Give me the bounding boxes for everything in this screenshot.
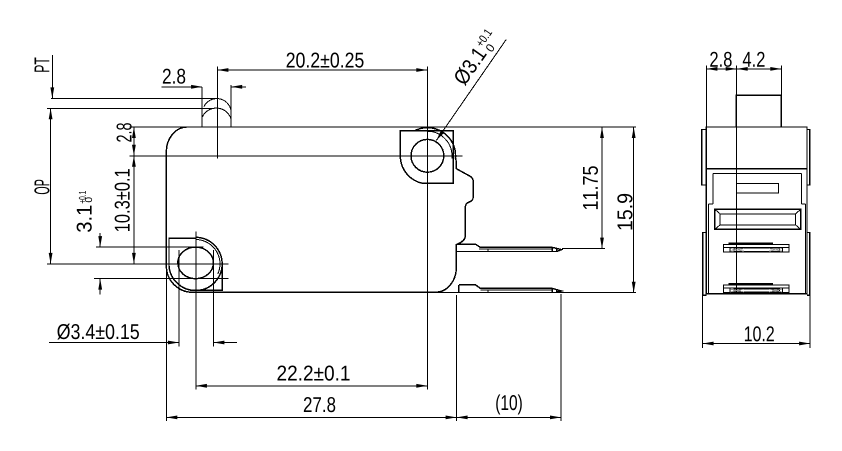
bottom-left mounting boss outer arc	[169, 237, 222, 290]
lower terminal	[459, 285, 562, 292]
side dim 10.2 extensions	[702, 296, 704, 348]
dim 3.1 +0.1/0 lines	[99, 233, 101, 247]
dim 11.75 line	[601, 127, 603, 249]
dim Ø3.4±0.15 lines	[178, 250, 180, 347]
dim 2.8 / 10.3 shared line	[133, 127, 135, 264]
top hole vertical centerline / extension to dims	[426, 67, 428, 390]
dim text 3.1	[77, 206, 92, 232]
extension at terminal tip	[560, 294, 562, 421]
side bottom terminal slot divider	[723, 287, 789, 289]
dim 2.8 (button width) lines	[162, 86, 203, 88]
leader line for hole dia 3.1	[436, 40, 506, 141]
side lower right ear	[807, 233, 810, 296]
dim text 27.8	[304, 397, 335, 412]
switch body left edge	[165, 152, 167, 266]
free position reference line	[51, 97, 216, 99]
top-right mounting boss ring arc	[427, 131, 452, 158]
side inner step	[737, 183, 779, 193]
top-right mounting boss outer arc	[415, 128, 456, 159]
button dome arc pressed position	[202, 108, 231, 120]
side middle terminal slot outer	[723, 244, 789, 252]
dim 22.2±0.1 line	[196, 385, 427, 387]
button dome arc free position	[204, 99, 231, 111]
side bottom terminal bowtie marks	[731, 289, 783, 292]
bottom-left mounting boss square top and left edges	[169, 238, 196, 265]
side lower left ear	[703, 233, 707, 296]
side dim 2.8/4.2 line	[706, 68, 781, 70]
dim text tolerance +0.1	[79, 191, 86, 203]
dim text 4.2 side	[743, 52, 765, 67]
bottom-left mounting boss square bottom and right edges	[192, 264, 222, 290]
dim text Ø3.4±0.15	[57, 324, 139, 340]
bottom hole vertical centerline / extension to 22.2 dim	[195, 232, 197, 390]
side bottom terminal slot blade edge	[729, 283, 773, 285]
side inner right vertical	[801, 174, 803, 204]
side window corner chamfers	[715, 209, 801, 229]
lower terminal inner line	[480, 289, 552, 291]
top edge extension line (left to 2.8 dim, right to 15.9 dim)	[129, 126, 186, 128]
side upper right ear	[807, 130, 810, 186]
dim PT line	[51, 55, 53, 98]
side dim 10.2 line	[703, 343, 811, 345]
side bottom terminal slot end cells	[729, 288, 731, 293]
top hole horizontal centerline	[129, 155, 462, 157]
bottom-left mounting hole ellipse	[178, 247, 214, 279]
dim text 2.8 left	[116, 123, 131, 142]
side bottom terminal slot outer	[723, 285, 789, 293]
middle terminal tip extension line	[562, 248, 605, 250]
button right edge	[230, 85, 232, 127]
dim 20.2±0.25 line	[217, 69, 427, 71]
bottom hole horizontal centerline	[47, 263, 229, 265]
side inner left vertical	[712, 174, 714, 204]
lower terminal shoulder tick	[487, 290, 489, 292]
top-right mounting boss square	[400, 131, 453, 184]
dim text 10.2	[745, 326, 774, 341]
side middle terminal slot divider	[723, 246, 789, 248]
dim text 10.3±0.1	[115, 169, 130, 231]
top-right mounting hole circle	[411, 139, 444, 172]
side body outline	[706, 127, 807, 294]
side bottom terminal inner rect	[734, 289, 780, 292]
bottom-left mounting boss ring arc	[196, 240, 220, 275]
dim text 2.8 side	[710, 52, 731, 67]
side middle terminal inner rect	[734, 248, 780, 251]
middle terminal shoulder tick	[487, 249, 489, 251]
side middle terminal slot end cells	[729, 247, 731, 252]
side middle terminal bowtie marks	[731, 249, 783, 252]
switch body bottom edge	[193, 291, 436, 293]
dim text 2.8 button width	[163, 69, 185, 84]
bottom edge extension to 15.9 dim	[436, 291, 636, 293]
dim text 22.2±0.1	[277, 365, 349, 380]
side band line 1	[706, 168, 807, 170]
dim text 15.9	[617, 194, 632, 230]
middle terminal inner line	[479, 248, 553, 250]
side upper left ear	[702, 130, 707, 186]
dim 27.8 and (10) shared line	[166, 416, 561, 418]
label OP	[34, 180, 49, 194]
bottom hole top tangent line	[96, 246, 204, 248]
operating position reference line	[47, 107, 215, 109]
bottom hole bottom tangent line	[94, 278, 228, 280]
switch body top edge	[187, 126, 416, 128]
body bottom-left corner arc	[166, 266, 192, 293]
dim text (10)	[496, 394, 522, 414]
dim 15.9 line	[633, 127, 635, 293]
button left edge	[201, 87, 203, 127]
body bottom-right corner arc	[436, 268, 456, 292]
leader text dia 3.1 +0.1/0	[451, 28, 501, 88]
side dim extension lines above	[705, 66, 707, 128]
button centerline	[216, 67, 218, 159]
side middle terminal slot blade edge	[729, 242, 773, 244]
dim text 11.75	[583, 166, 598, 209]
label PT	[35, 58, 50, 72]
extension for 27.8/(10) at body right edge	[456, 295, 458, 421]
side housing parting vertical line	[736, 127, 738, 294]
left edge extension down to 27.8 dim	[165, 266, 167, 421]
side pocket side jogs	[709, 203, 806, 205]
side recessed window inner	[720, 214, 795, 225]
side recessed window outer	[715, 209, 801, 229]
body right edge segment between terminals	[455, 244, 457, 268]
side plunger	[736, 95, 781, 127]
dim text tolerance 0	[85, 197, 92, 202]
side band line 2	[713, 173, 802, 175]
body top-left corner arc	[166, 127, 186, 152]
dim text 20.2±0.25	[287, 52, 364, 67]
body right side stepped profile	[456, 158, 474, 244]
dim OP line	[50, 108, 52, 264]
middle terminal	[456, 244, 561, 251]
